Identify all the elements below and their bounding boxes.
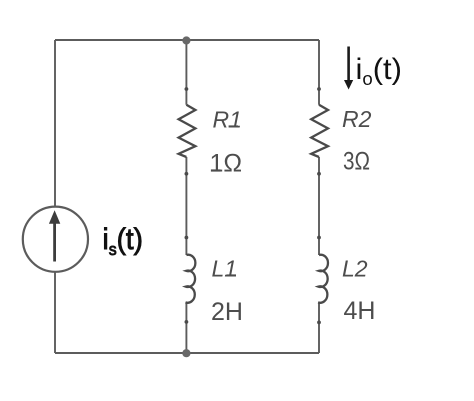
label 1-ohm digit foot [211, 169, 221, 171]
resistor R2 terminal dots [317, 87, 321, 91]
output current arrow io(t) shaft [347, 47, 350, 82]
label R1 digit foot [229, 125, 238, 127]
wire right branch lower [318, 303, 320, 354]
wire top [55, 39, 319, 41]
wire middle branch mid [185, 157, 187, 255]
svg-text:4H: 4H [344, 297, 376, 325]
inductor L1 terminal dots [185, 236, 189, 240]
label L1 digit foot [226, 274, 236, 276]
svg-text:L1: L1 [212, 256, 238, 282]
svg-text:2H: 2H [211, 298, 243, 326]
node junction top [182, 36, 190, 44]
svg-text:io(t): io(t) [356, 53, 403, 89]
wire left upper [54, 40, 56, 207]
current source arrow shaft [53, 222, 56, 262]
wire left lower [54, 271, 56, 353]
wire bottom [55, 352, 319, 354]
svg-text:1Ω: 1Ω [210, 150, 243, 178]
svg-text:3Ω: 3Ω [343, 148, 370, 176]
resistor R1 terminal dots [185, 87, 189, 91]
wire right branch upper [318, 40, 320, 105]
svg-text:L2: L2 [342, 255, 368, 281]
current source arrowhead [49, 210, 60, 224]
svg-text:R2: R2 [342, 106, 372, 132]
resistor R2 [311, 105, 328, 157]
resistor R1 [179, 105, 196, 157]
wire middle branch lower [185, 303, 187, 354]
output current arrowhead [344, 80, 353, 90]
node junction bottom [182, 349, 190, 357]
wire middle branch upper [185, 40, 187, 105]
svg-text:is(t): is(t) [103, 223, 144, 259]
svg-text:R1: R1 [213, 107, 242, 133]
wire right branch mid [318, 157, 320, 255]
inductor L2 [318, 255, 328, 303]
inductor L1 [185, 255, 195, 303]
current source circle [23, 207, 88, 272]
inductor L2 terminal dots [317, 236, 321, 240]
